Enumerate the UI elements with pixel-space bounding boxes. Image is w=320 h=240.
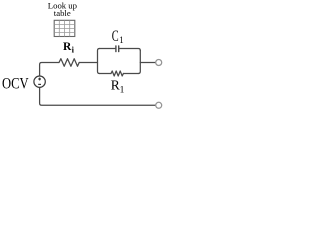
terminal: negative output (156, 102, 162, 108)
terminal: positive output (156, 60, 162, 66)
voltage source OCV symbol (34, 76, 45, 87)
wire: source bottom rail (40, 87, 156, 105)
svg-text:i: i (72, 45, 75, 55)
wire: Ri to RC network (79, 62, 97, 64)
wire: top branch right segment (119, 49, 140, 51)
wire: bottom branch right lead (123, 73, 138, 75)
svg-text:R: R (111, 77, 120, 92)
RC box left vertical wire (98, 49, 100, 74)
minus sign (38, 83, 41, 85)
capacitor C1 plates (116, 46, 119, 52)
wire: source top to resistor Ri (40, 63, 59, 77)
resistor R1 (111, 71, 123, 76)
svg-text:table: table (54, 8, 71, 18)
RC box right vertical wire (138, 51, 140, 74)
resistor Ri (59, 59, 79, 67)
wire: bottom branch left lead (100, 73, 112, 75)
plus sign (39, 78, 41, 81)
svg-text:1: 1 (119, 36, 124, 46)
lookup table icon (54, 20, 75, 36)
svg-text:OCV: OCV (2, 76, 29, 93)
svg-text:1: 1 (120, 85, 125, 95)
wire: top branch left segment (100, 48, 116, 50)
wire: output top (140, 62, 156, 64)
svg-text:C: C (112, 28, 119, 45)
